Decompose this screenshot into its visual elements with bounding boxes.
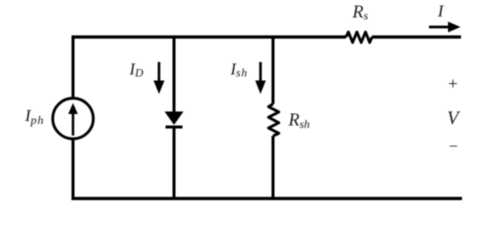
label I_D [129, 60, 145, 80]
wire diode branch upper [173, 36, 176, 113]
label - (negative terminal) [448, 139, 459, 156]
wire shunt branch upper [272, 36, 275, 105]
wire bottom horizontal [72, 197, 463, 200]
wire shunt branch lower [272, 136, 275, 200]
wire top-left horizontal (node A to R_s) [72, 35, 347, 38]
label I_ph [24, 106, 44, 127]
resistor R_sh [269, 104, 279, 136]
wire top-right horizontal (R_s to output) [372, 35, 461, 38]
arrow I (output current) [429, 22, 461, 33]
label R_sh [288, 110, 310, 132]
wire left vertical lower [72, 140, 75, 200]
label V (terminal voltage) [447, 108, 461, 129]
svg-text:+: + [447, 74, 458, 93]
label R_s [352, 2, 369, 23]
current source I_ph [53, 98, 94, 139]
wire left vertical upper [72, 36, 75, 98]
svg-text:V: V [447, 108, 461, 129]
svg-text:ID: ID [129, 60, 145, 80]
svg-text:I: I [437, 2, 445, 21]
label + (positive terminal) [447, 74, 458, 93]
diode D [166, 112, 183, 127]
svg-text:Rs: Rs [352, 2, 369, 23]
arrow I_sh [255, 62, 266, 94]
label I_sh [230, 60, 248, 80]
wire diode branch lower [173, 127, 176, 200]
svg-text:Ish: Ish [230, 60, 248, 80]
resistor R_s [346, 32, 372, 43]
label I [437, 2, 445, 21]
arrow I_D [154, 62, 165, 94]
svg-text:−: − [448, 139, 459, 156]
svg-text:Rsh: Rsh [288, 110, 310, 132]
svg-text:Iph: Iph [24, 106, 44, 127]
